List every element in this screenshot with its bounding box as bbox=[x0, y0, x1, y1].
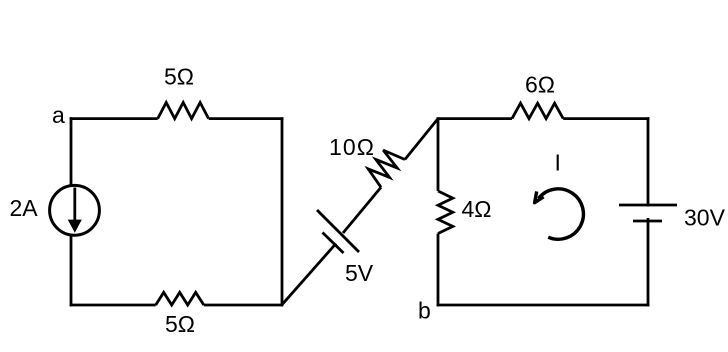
wire: right side of right loop, upper segment (to battery V2) bbox=[647, 117, 650, 206]
mesh current I loop arrow (counterclockwise) bbox=[535, 189, 584, 239]
wire: bottom side of left loop, left part to resistor R2 bbox=[70, 304, 156, 307]
wire: left side of left loop, lower segment (current source to bottom-left corner) bbox=[70, 235, 73, 306]
wire: diagonal middle segment from battery V1 to resistor R3 bbox=[343, 187, 381, 233]
wire: left side of left loop, upper segment (node a down to current source) bbox=[70, 117, 73, 186]
wire: right side of left loop bbox=[281, 117, 284, 306]
wire: diagonal lower segment from left loop corner to battery V1 short plate bbox=[281, 244, 336, 306]
wire: left side of right loop, upper segment (corner to resistor R5) bbox=[437, 117, 440, 191]
battery V1 5V short plate (negative) bbox=[323, 233, 344, 254]
battery V2 30V short plate (negative) bbox=[633, 220, 662, 223]
battery V1 5V long plate (positive) bbox=[317, 210, 359, 252]
svg-text:a: a bbox=[52, 102, 65, 128]
svg-text:30V: 30V bbox=[684, 204, 726, 230]
wire: left side of right loop, lower segment (R5 to node b corner) bbox=[437, 234, 440, 307]
wire: top side of right loop, R4 to top-right corner bbox=[563, 117, 649, 120]
resistor R4 6ohm (top of right loop) bbox=[512, 103, 563, 118]
resistor R1 5ohm (top of left loop) bbox=[158, 103, 209, 119]
svg-text:5Ω: 5Ω bbox=[165, 311, 195, 337]
wire: top side of left loop, R1 to top-right corner bbox=[209, 117, 284, 120]
wire: bottom side of left loop, R2 to bottom-right corner bbox=[204, 304, 282, 307]
resistor R5 4ohm (left side of right loop) bbox=[438, 191, 453, 234]
svg-text:6Ω: 6Ω bbox=[525, 72, 555, 98]
resistor R2 5ohm (bottom of left loop) bbox=[156, 292, 204, 305]
svg-text:4Ω: 4Ω bbox=[462, 196, 492, 222]
wire: diagonal upper segment from R3 to right loop top-left corner bbox=[405, 119, 438, 160]
current source I1 2A (circle with downward arrow) bbox=[50, 185, 100, 235]
wire: top side of right loop, left part to resistor R4 bbox=[437, 117, 512, 120]
svg-text:5V: 5V bbox=[345, 260, 374, 286]
svg-text:10Ω: 10Ω bbox=[329, 134, 375, 160]
resistor R3 10ohm (on diagonal) bbox=[368, 150, 405, 187]
svg-text:2A: 2A bbox=[10, 195, 39, 221]
wire: top side of left loop, node a to resistor R1 bbox=[70, 117, 158, 120]
wire: bottom side of right loop bbox=[437, 304, 650, 307]
wire: right side of right loop, lower segment (battery V2 to bottom-right corner) bbox=[647, 218, 650, 306]
battery V2 30V long plate (positive) bbox=[619, 204, 677, 207]
svg-text:I: I bbox=[555, 150, 561, 176]
svg-text:b: b bbox=[418, 298, 431, 324]
svg-text:5Ω: 5Ω bbox=[164, 64, 194, 90]
